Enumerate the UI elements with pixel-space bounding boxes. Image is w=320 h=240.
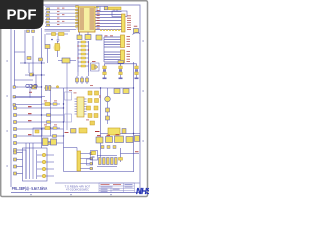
- capacitor C5: [81, 76, 84, 84]
- margin zone marks: [7, 25, 144, 195]
- wire loop below F1: [112, 10, 127, 17]
- extra red net labels: [44, 85, 93, 125]
- wire y133.5: [101, 133, 141, 135]
- terminal row T10: [14, 149, 27, 152]
- relay K2: [91, 151, 98, 161]
- relay K1: [58, 58, 76, 63]
- terminal T14: [14, 172, 23, 175]
- connector J1: [122, 14, 126, 32]
- footer separator line: [55, 182, 140, 184]
- parts on terminal rows: [47, 114, 57, 145]
- row2 bits: [101, 146, 116, 149]
- ground sym: [57, 36, 60, 42]
- wire vertical x33: [32, 36, 34, 75]
- resistor R8: [59, 33, 65, 36]
- resistor R4: [78, 53, 89, 55]
- terminal row T7: [14, 128, 64, 131]
- wire y88: [44, 87, 134, 89]
- title block red text: [101, 183, 122, 186]
- capacitor C1: [77, 32, 82, 40]
- svg-text:NHS: NHS: [136, 187, 149, 196]
- thumbnail gray border: [1, 1, 148, 197]
- capacitor bank comb: [97, 156, 117, 167]
- terminal T12: [14, 158, 23, 161]
- node dot A: [51, 39, 53, 41]
- wire vertical x14.5: [14, 30, 16, 86]
- drop x100: [100, 150, 102, 157]
- svg-text:PRL.SBP(4) - 5.6n7.5kVA: PRL.SBP(4) - 5.6n7.5kVA: [12, 186, 48, 191]
- buzzer LS1: [91, 61, 100, 71]
- terminal row T9: [14, 142, 64, 145]
- wire y97.5: [15, 97, 43, 99]
- red dash b: [29, 91, 32, 94]
- capacitor C3: [96, 35, 102, 40]
- fuse F1: [104, 7, 121, 10]
- connector J2: [121, 35, 125, 48]
- transistor Q2: [103, 66, 107, 79]
- title block blue text: [101, 184, 133, 192]
- bus net labels red: [97, 10, 100, 28]
- resistor R7: [78, 65, 89, 67]
- wire row y104: [42, 103, 60, 106]
- part on feed wire: [118, 61, 124, 64]
- J3 pin labels: [127, 51, 131, 62]
- part row i5: [135, 136, 140, 142]
- wire x30 drop: [29, 88, 31, 98]
- section line vertical x67: [66, 63, 68, 130]
- resistor R6: [78, 61, 89, 63]
- part cluster a: [27, 30, 35, 33]
- PDF badge: [0, 0, 44, 29]
- header J4: [77, 151, 93, 171]
- sub-circuit label box 2: [65, 114, 72, 122]
- transistor Q4: [135, 66, 139, 79]
- U1 bottom pad row: [100, 30, 120, 31]
- highlight strip over U1 top: [78, 6, 99, 8]
- J2 left net labels: [105, 35, 114, 38]
- rail x133.5: [133, 62, 135, 172]
- bus into J3: [104, 52, 121, 62]
- TR1 internal wires: [26, 143, 37, 179]
- inductor L1: [52, 33, 56, 36]
- section line vertical x63.5: [63, 88, 65, 172]
- resistor R3: [78, 49, 89, 51]
- transistor Q1: [45, 45, 50, 53]
- fan wires: [45, 7, 79, 27]
- TR1 pads: [42, 153, 46, 178]
- wire y75: [25, 74, 45, 76]
- RN1 pad column: [76, 6, 79, 27]
- part cluster f: [43, 138, 57, 146]
- J2 pin labels: [127, 36, 131, 47]
- yellow part grid: [87, 91, 99, 125]
- terminal row T6: [14, 120, 64, 123]
- junction dots mesh: [24, 62, 134, 134]
- IC U1 left pin stubs: [77, 9, 79, 29]
- sub-circuit label box 1: [65, 92, 72, 100]
- terminal T1: [13, 86, 42, 89]
- part row i4: [126, 137, 133, 143]
- IC U1 pin name text: [80, 9, 95, 30]
- sheet frame: [11, 5, 140, 193]
- part cluster d: [32, 85, 37, 89]
- wire stubs above U1: [96, 7, 108, 12]
- wire vertical x41.5: [41, 28, 43, 148]
- wire y171.5: [64, 171, 134, 173]
- ladder rails: [78, 41, 89, 72]
- crystal Y1: [53, 41, 60, 57]
- part cluster c: [30, 73, 34, 76]
- terminal T11: [14, 151, 23, 154]
- bus U1 to J1: [96, 12, 122, 30]
- wire tips: [90, 152, 93, 170]
- resistor R9: [65, 128, 88, 133]
- bus dropper: [103, 37, 105, 62]
- capacitor C6: [86, 76, 89, 84]
- part row i3: [115, 134, 124, 142]
- inductor loops L2: [26, 84, 37, 87]
- terminal T13: [14, 165, 23, 168]
- terminal row T5: [14, 113, 64, 116]
- svg-text:4T-O2O8/O3O8/EC: 4T-O2O8/O3O8/EC: [66, 189, 89, 192]
- terminal row T4: [14, 106, 64, 109]
- terminal row T8: [14, 134, 64, 137]
- junction dots rows: [63, 107, 64, 136]
- title block table: [99, 183, 135, 193]
- terminal T3: [13, 104, 42, 107]
- connector J3: [121, 50, 125, 63]
- vertical part pair top: [45, 86, 51, 91]
- feed wire: [105, 64, 137, 66]
- wire vertical x50.5: [50, 88, 52, 136]
- J4 feed wire: [64, 148, 78, 152]
- rail x100.5: [100, 88, 102, 150]
- wire y63: [20, 62, 45, 64]
- capacitor C2: [85, 32, 91, 40]
- IC U1 body: [79, 7, 96, 32]
- extra left wires: [15, 34, 89, 88]
- capacitor C4: [76, 76, 79, 84]
- part h: [87, 159, 93, 165]
- part on y88 g2: [123, 89, 129, 94]
- IC U9 vertical: [75, 97, 87, 117]
- junction dots ladder: [77, 45, 89, 62]
- node dots on y88: [49, 86, 59, 88]
- diode D1 with arc: [133, 26, 141, 35]
- part on y88 g1: [114, 89, 120, 94]
- zener D3: [106, 108, 110, 120]
- capacitor C9: [119, 148, 140, 162]
- red bits center: [74, 93, 101, 121]
- LED D2: [105, 88, 111, 124]
- resistor R2: [78, 45, 89, 47]
- bus into J2: [104, 37, 121, 47]
- fan red net labels: [57, 8, 64, 25]
- wire y34: [46, 33, 68, 35]
- resistor R1: [78, 41, 89, 43]
- J1 pin labels: [127, 16, 131, 31]
- TR1 pad wires: [37, 155, 54, 176]
- transformer block TR1 outline: [23, 148, 48, 181]
- svg-text:PDF: PDF: [7, 7, 37, 24]
- transistor Q3: [119, 66, 123, 79]
- wire vertical x25: [24, 30, 26, 63]
- part row i1: [96, 135, 103, 143]
- part row i2: [106, 135, 113, 143]
- resistor R5: [78, 57, 89, 59]
- wire row y128: [42, 127, 60, 130]
- part cluster b: [27, 57, 43, 62]
- terminal T2: [13, 96, 45, 99]
- diode column on fan: [46, 8, 50, 27]
- part mid e: [33, 128, 42, 136]
- cluster y126-138: [95, 128, 126, 135]
- page background: [0, 0, 149, 198]
- wires under fan: [45, 30, 77, 32]
